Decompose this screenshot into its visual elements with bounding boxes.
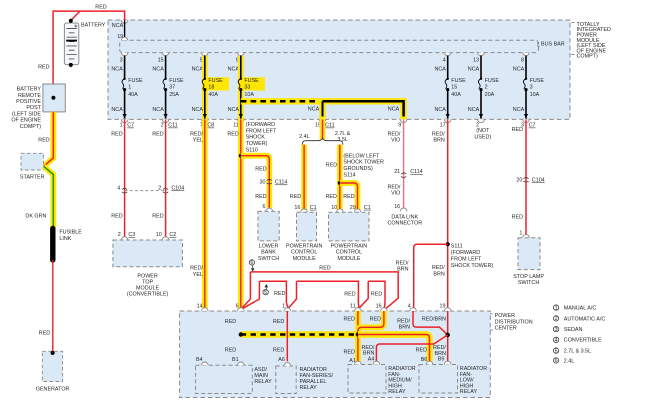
wire: fusible link to generator (RED) — [39, 260, 53, 351]
junction at PDC pin 11 column — [356, 332, 360, 336]
svg-text:RED: RED — [512, 127, 523, 133]
svg-text:RED/: RED/ — [396, 260, 409, 266]
wire: junction to A4 (RED/BRN) — [362, 335, 448, 361]
svg-text:AUTOMATIC A/C: AUTOMATIC A/C — [564, 316, 606, 322]
node: PDC pin 19 — [440, 303, 452, 311]
svg-text:RED/: RED/ — [190, 266, 203, 272]
svg-text:4: 4 — [555, 338, 558, 344]
svg-text:RED: RED — [95, 4, 106, 10]
fuse 3 (10A) column — [513, 53, 545, 129]
svg-text:3: 3 — [120, 58, 123, 64]
node: PDC pin 16 — [376, 303, 388, 311]
fuse 33 (10A) column — [228, 53, 265, 129]
ASD/main relay box — [196, 365, 272, 393]
svg-text:BRN: BRN — [433, 271, 444, 277]
node: power top module pin 10 C2 — [156, 232, 177, 240]
svg-text:BRN: BRN — [433, 138, 444, 144]
svg-text:C11: C11 — [168, 123, 178, 129]
svg-text:C7: C7 — [529, 123, 536, 129]
svg-text:NCA: NCA — [152, 107, 164, 113]
svg-text:40A: 40A — [451, 92, 461, 98]
svg-text:CONVERTIBLE: CONVERTIBLE — [564, 338, 602, 344]
marker circled 6 (2.4L feed) — [249, 260, 254, 272]
svg-text:1: 1 — [128, 84, 131, 90]
svg-text:LINK: LINK — [59, 236, 71, 242]
bus bar — [120, 40, 539, 52]
label RED (C104 to power top module pin 2 C3) — [111, 213, 122, 219]
svg-text:RELAY: RELAY — [388, 389, 406, 395]
svg-text:2: 2 — [485, 84, 488, 90]
svg-text:15: 15 — [451, 84, 457, 90]
svg-text:POSITIVE: POSITIVE — [16, 99, 41, 105]
svg-text:3: 3 — [555, 327, 558, 333]
junction at PDC pin 19 column — [446, 333, 450, 337]
svg-text:DISTRIBUTION: DISTRIBUTION — [495, 319, 533, 325]
svg-text:NCA: NCA — [513, 66, 525, 72]
svg-text:RED: RED — [344, 316, 355, 322]
svg-text:29: 29 — [350, 205, 356, 211]
svg-text:RED: RED — [326, 194, 337, 200]
svg-text:1: 1 — [555, 305, 558, 311]
fuse 37 (25A) column — [152, 53, 184, 129]
lower bank switch box — [258, 211, 279, 262]
node: TIPM pin 2 (not used) — [474, 128, 491, 141]
wire: TIPM pin2 C11 to C104 pin 2 (RED) — [152, 119, 165, 236]
power top module box — [113, 240, 182, 297]
svg-text:RED/: RED/ — [388, 131, 401, 137]
fuse 1 (40A) column — [111, 53, 143, 129]
svg-text:RED: RED — [326, 162, 337, 168]
svg-text:RED: RED — [152, 213, 163, 219]
svg-text:RED: RED — [39, 331, 50, 337]
svg-text:BUS BAR: BUS BAR — [541, 41, 565, 47]
svg-text:30: 30 — [260, 180, 266, 186]
svg-text:2: 2 — [158, 185, 161, 191]
svg-text:RED: RED — [273, 347, 284, 353]
svg-text:COMPT): COMPT) — [577, 54, 598, 60]
svg-text:FUSE: FUSE — [451, 78, 466, 84]
svg-text:NCA: NCA — [192, 66, 204, 72]
svg-text:RED: RED — [370, 316, 381, 322]
svg-text:16: 16 — [294, 205, 300, 211]
svg-text:C1: C1 — [364, 205, 371, 211]
svg-text:RED: RED — [290, 194, 301, 200]
wire H1: feed to PDC pins 6 and 16 (RED) — [242, 266, 398, 309]
svg-text:40A: 40A — [128, 92, 138, 98]
svg-text:MANUAL A/C: MANUAL A/C — [564, 306, 597, 312]
svg-text:DATA LINK: DATA LINK — [391, 214, 418, 220]
svg-text:3.5L: 3.5L — [337, 137, 348, 143]
svg-text:4: 4 — [408, 303, 411, 309]
wire: S110 branch to lower bank switch pin 6 (RED, highlighted) — [241, 156, 269, 208]
svg-text:S110: S110 — [246, 148, 258, 154]
wire: S114 branch to PCM pin 29 C1 (RED, highlighted) — [326, 183, 358, 211]
svg-text:RED/: RED/ — [432, 131, 445, 137]
svg-text:USED): USED) — [474, 134, 491, 140]
svg-text:MODULE: MODULE — [337, 256, 360, 262]
svg-text:10: 10 — [156, 232, 162, 238]
svg-text:1: 1 — [519, 230, 522, 236]
marker circled 5 (2.7L/3.5L feed) — [263, 284, 286, 297]
bus bar label — [538, 41, 565, 47]
node: series/parallel relay pin A6 — [284, 363, 291, 366]
svg-text:40A: 40A — [208, 92, 218, 98]
svg-text:1: 1 — [120, 123, 123, 129]
svg-text:GENERATOR: GENERATOR — [36, 387, 70, 393]
wire: pin 19 to bus bar (NCA) — [122, 20, 128, 40]
svg-text:A4: A4 — [368, 357, 375, 363]
node: ASD relay pin B1 — [238, 362, 245, 365]
radiator fan medium/high relay box — [348, 365, 416, 396]
svg-text:C104: C104 — [532, 177, 545, 183]
wire: PDC pin 19 through junction to B9 (RED/BRN) — [433, 311, 448, 361]
svg-text:SHOCK TOWER): SHOCK TOWER) — [451, 263, 494, 269]
powertrain control module box (2.4L) — [286, 212, 323, 262]
wire: PDC pin 4 to junction at pin 19 (RED/BRN) — [397, 311, 448, 335]
svg-text:B1: B1 — [232, 357, 239, 363]
wire: PDC pin 16 curve into pin 11 column (RED, highlighted) — [358, 311, 384, 335]
svg-text:VIO: VIO — [391, 191, 400, 197]
label RED (post box output) — [38, 137, 49, 143]
svg-text:YEL: YEL — [193, 138, 203, 144]
svg-text:SEDAN: SEDAN — [564, 327, 583, 333]
svg-text:20: 20 — [516, 177, 522, 183]
fusible link — [50, 227, 82, 260]
svg-text:1: 1 — [282, 303, 285, 309]
svg-text:TOWER): TOWER) — [246, 141, 268, 147]
power distribution center box (PDC) — [180, 311, 491, 398]
svg-text:RED: RED — [111, 213, 122, 219]
label RED/VIO (C114 to data link connector pin 16) — [388, 184, 401, 196]
svg-text:21: 21 — [394, 169, 400, 175]
svg-text:RED: RED — [343, 194, 354, 200]
svg-text:6: 6 — [555, 358, 558, 364]
svg-text:VIO: VIO — [391, 138, 400, 144]
wire: TIPM pin19 C11 stub (RED, highlighted) — [320, 119, 326, 139]
label RED (left battery wire) — [38, 64, 49, 70]
svg-text:RED: RED — [273, 319, 284, 325]
svg-text:STARTER: STARTER — [20, 175, 45, 181]
svg-text:10: 10 — [331, 205, 337, 211]
battery — [64, 19, 105, 67]
label RED (top feed wire) — [95, 4, 106, 10]
connector C104 pin 20 — [516, 177, 544, 183]
svg-text:17: 17 — [440, 123, 446, 129]
svg-text:B9: B9 — [438, 357, 445, 363]
TIPM label — [571, 22, 611, 60]
svg-text:C3: C3 — [128, 232, 135, 238]
svg-text:COMPT): COMPT) — [20, 124, 41, 130]
svg-text:RED: RED — [255, 166, 266, 172]
svg-text:FROM LEFT: FROM LEFT — [451, 256, 482, 262]
svg-text:CONTROL: CONTROL — [291, 250, 317, 256]
node: stop lamp switch pin 1 — [519, 230, 529, 237]
svg-text:C11: C11 — [325, 123, 335, 129]
wire: 2.7L/3.5L branch to S114 (RED, highlighted) — [326, 145, 340, 211]
fuse 18 (40A) column — [192, 53, 229, 129]
svg-text:15: 15 — [158, 58, 164, 64]
svg-text:16: 16 — [394, 204, 400, 210]
node: medium/high relay pin A1 — [355, 361, 362, 364]
svg-text:C114: C114 — [275, 180, 288, 186]
svg-text:SHOCK: SHOCK — [246, 135, 266, 141]
node: PDC pin 14 — [197, 303, 209, 311]
wire: TIPM pin11 to S110 to PDC pin 6 (RED, highlighted) — [227, 119, 240, 362]
node: low/high relay pin B9 — [444, 361, 451, 364]
svg-text:2.7L & 3.5L: 2.7L & 3.5L — [564, 349, 591, 355]
svg-text:GROUNDS): GROUNDS) — [343, 166, 373, 172]
wire: PDC pin 1 to A6 (RED) — [273, 311, 287, 361]
node: medium/high relay pin A4 — [373, 361, 380, 364]
svg-text:13: 13 — [473, 58, 479, 64]
svg-text:RED: RED — [371, 291, 382, 297]
node: PDC pin 6 — [236, 303, 245, 311]
svg-text:BRN: BRN — [399, 325, 410, 331]
svg-text:4: 4 — [443, 58, 446, 64]
wire: junction to B6 (RED, highlighted) — [358, 335, 430, 362]
svg-text:5: 5 — [264, 290, 267, 296]
svg-text:(FORWARD: (FORWARD — [451, 250, 480, 256]
wire: TIPM pin 3 C7 to C104 pin 20 (RED) — [512, 119, 526, 234]
svg-text:20A: 20A — [485, 92, 495, 98]
node: PCM pin 10 — [331, 205, 343, 212]
label RED (pin 6 below junction) — [225, 347, 236, 353]
stop lamp switch box — [513, 238, 544, 286]
label RED (below C114-30) — [255, 194, 266, 200]
svg-text:CENTER: CENTER — [495, 326, 517, 332]
svg-text:NCA: NCA — [513, 107, 525, 113]
svg-text:FUSIBLE: FUSIBLE — [59, 230, 82, 236]
svg-text:6: 6 — [250, 260, 253, 266]
svg-text:2.4L: 2.4L — [564, 358, 575, 364]
svg-text:RED: RED — [38, 64, 49, 70]
svg-text:4: 4 — [117, 185, 120, 191]
svg-text:6: 6 — [263, 204, 266, 210]
wire: TIPM pin1 C7 to C104 pin 4 (RED) — [111, 119, 124, 236]
svg-text:11: 11 — [350, 303, 356, 309]
svg-text:RED: RED — [416, 347, 427, 353]
svg-text:16: 16 — [376, 303, 382, 309]
svg-text:RED: RED — [274, 291, 285, 297]
splice S114 — [338, 153, 384, 185]
svg-text:NCA: NCA — [228, 107, 240, 113]
svg-text:YEL: YEL — [193, 272, 203, 278]
data link connector label — [387, 214, 422, 226]
wire: PDC pin 6 junction to pin 11 junction (dashed, highlighted) — [241, 331, 358, 337]
svg-text:FUSE: FUSE — [485, 78, 500, 84]
svg-text:2: 2 — [555, 316, 558, 322]
battery remote positive post box — [11, 84, 65, 130]
svg-text:18: 18 — [208, 84, 214, 90]
svg-text:6: 6 — [236, 303, 239, 309]
label B-pin names — [196, 357, 444, 364]
svg-text:3: 3 — [530, 84, 533, 90]
svg-text:RED: RED — [111, 131, 122, 137]
svg-text:SWITCH: SWITCH — [258, 256, 279, 262]
svg-text:NCA: NCA — [111, 107, 123, 113]
powertrain control module box (2.7L/3.5L) — [329, 212, 370, 262]
svg-text:FROM LEFT: FROM LEFT — [246, 128, 277, 134]
svg-text:25A: 25A — [169, 92, 179, 98]
wire H4: PDC pin 11 to pin 16 (RED) — [359, 281, 385, 308]
node: PCM pin 29 C1 — [350, 205, 371, 212]
svg-text:C1: C1 — [310, 205, 317, 211]
node: PDC pin 4 — [408, 303, 417, 311]
svg-text:NCA: NCA — [435, 107, 447, 113]
svg-text:FUSE: FUSE — [169, 78, 184, 84]
wire: TIPM pin7 C8 to PDC pin 14 to ASD relay B4 (RED/YEL, highlighted) — [190, 119, 205, 362]
svg-text:RED/: RED/ — [388, 184, 401, 190]
svg-text:CONNECTOR: CONNECTOR — [387, 221, 422, 227]
svg-text:9: 9 — [398, 123, 401, 129]
svg-text:C2: C2 — [169, 232, 176, 238]
svg-text:(BELOW LEFT: (BELOW LEFT — [343, 153, 380, 159]
wire: 2.4L branch to PCM pin 16 C1 (RED, highlighted) — [290, 145, 304, 211]
wire H2: feed to PDC pins 6 and 1 (RED) — [243, 281, 288, 308]
svg-text:(NOT: (NOT — [476, 128, 490, 134]
label RED (pin 6 above junction) — [225, 319, 236, 325]
svg-text:2.7L &: 2.7L & — [335, 131, 351, 137]
svg-text:RED: RED — [152, 131, 163, 137]
svg-text:2: 2 — [118, 232, 121, 238]
svg-text:RELAY: RELAY — [254, 379, 272, 385]
svg-text:BANK: BANK — [261, 250, 276, 256]
totally integrated power module box (TIPM) — [108, 20, 570, 119]
wire: post box to starter jog (RED, highlighted) — [44, 112, 54, 166]
svg-text:POST: POST — [26, 105, 41, 111]
svg-text:RED: RED — [225, 347, 236, 353]
svg-text:NCA: NCA — [308, 106, 320, 112]
fuse 15 (40A) column — [435, 53, 467, 129]
svg-text:RELAY: RELAY — [460, 389, 478, 395]
svg-text:NCA: NCA — [435, 66, 447, 72]
svg-text:RELAY: RELAY — [300, 385, 318, 391]
svg-text:RED: RED — [512, 214, 523, 220]
svg-text:RED: RED — [255, 194, 266, 200]
svg-text:FUSE: FUSE — [244, 78, 259, 84]
svg-text:RED: RED — [227, 131, 238, 137]
junction at PDC pin 6 column — [239, 332, 243, 336]
svg-text:2: 2 — [161, 123, 164, 129]
brace splitting to engine variants — [299, 131, 351, 145]
svg-text:C114: C114 — [410, 169, 423, 175]
node: ASD relay pin B4 — [202, 362, 209, 365]
wire: PDC pin 11 to A1 (RED, highlighted) — [344, 311, 358, 361]
starter box — [20, 153, 45, 180]
label RED (C104 to power top module pin 10 C2) — [152, 213, 163, 219]
svg-text:NCA: NCA — [468, 66, 480, 72]
svg-text:POWER: POWER — [495, 313, 515, 319]
node: power top module pin 2 C3 — [118, 232, 136, 240]
svg-text:RED/: RED/ — [397, 318, 410, 324]
svg-text:19: 19 — [440, 303, 446, 309]
svg-text:B6: B6 — [421, 357, 428, 363]
radiator fan low/high relay box — [419, 365, 487, 396]
svg-text:8: 8 — [521, 58, 524, 64]
svg-text:NCA: NCA — [112, 23, 124, 29]
svg-text:A6: A6 — [278, 357, 285, 363]
svg-text:FUSE: FUSE — [208, 78, 223, 84]
fuse 2 (20A) column — [468, 53, 500, 129]
label RED (C104 to stop lamp switch pin 1) — [512, 214, 523, 220]
svg-text:STOP LAMP: STOP LAMP — [513, 274, 544, 280]
svg-text:RED/BRN: RED/BRN — [422, 317, 446, 323]
wire: battery positive to TIPM pin 19 (RED) — [53, 11, 125, 84]
node: PDC pin 11 — [350, 303, 361, 311]
node: TIPM pin 19 entry — [112, 20, 128, 40]
svg-text:C104: C104 — [171, 185, 184, 191]
svg-text:RED: RED — [38, 137, 49, 143]
connector C114 pin 21 — [394, 169, 423, 177]
svg-text:RED: RED — [344, 350, 355, 356]
svg-text:33: 33 — [244, 84, 250, 90]
svg-text:NCA: NCA — [192, 107, 204, 113]
svg-text:B4: B4 — [196, 357, 203, 363]
svg-text:SHOCK TOWER: SHOCK TOWER — [343, 160, 384, 166]
node: lower bank switch pin 6 — [263, 204, 273, 212]
svg-text:SWITCH: SWITCH — [518, 280, 539, 286]
svg-text:BATTERY: BATTERY — [17, 87, 42, 93]
svg-text:CONTROL: CONTROL — [336, 250, 362, 256]
svg-text:NCA: NCA — [152, 66, 164, 72]
splice S111 — [446, 242, 494, 269]
wire: TIPM pin 9 to C114 pin 21 (RED/VIO) — [388, 119, 404, 208]
node: PCM pin 16 C1 — [294, 205, 316, 212]
svg-text:(FORWARD: (FORWARD — [246, 122, 275, 128]
wire: starter jog to fusible link (DK GRN, highlighted) — [25, 166, 53, 228]
svg-text:BATTERY: BATTERY — [81, 22, 106, 28]
svg-text:RED/: RED/ — [432, 265, 445, 271]
svg-text:14: 14 — [197, 303, 203, 309]
svg-text:(CONVERTIBLE): (CONVERTIBLE) — [127, 291, 169, 297]
node: low/high relay pin B6 — [426, 361, 433, 364]
radiator fan series/parallel relay box — [276, 366, 334, 394]
svg-text:NCA: NCA — [468, 107, 480, 113]
svg-text:10A: 10A — [530, 92, 540, 98]
svg-text:LOWER: LOWER — [259, 243, 279, 249]
svg-text:NCA: NCA — [388, 106, 400, 112]
svg-text:C7: C7 — [127, 123, 134, 129]
wire H3: PDC pin 1 to pin 11 (RED) — [289, 281, 359, 308]
svg-text:OF ENGINE: OF ENGINE — [11, 118, 41, 124]
wire: fuse 33 jumper to pins 19 and 9 (highlighted) — [241, 101, 407, 128]
svg-text:POWERTRAIN: POWERTRAIN — [331, 243, 368, 249]
svg-text:RED: RED — [344, 291, 355, 297]
splice S110 — [239, 122, 277, 158]
svg-text:DK GRN: DK GRN — [25, 213, 46, 219]
svg-text:NCA: NCA — [111, 66, 123, 72]
node: PDC pin 1 — [282, 303, 291, 311]
svg-text:S114: S114 — [343, 173, 355, 179]
svg-text:2.4L: 2.4L — [299, 134, 310, 140]
svg-text:POWERTRAIN: POWERTRAIN — [286, 243, 323, 249]
connector C104 (left, pins 4 and 2) — [117, 185, 184, 193]
node: data link connector pin 16 — [394, 204, 407, 211]
generator box — [36, 351, 70, 393]
wire: S111 branch to PDC pin 4 (RED/BRN) — [396, 244, 448, 311]
wire: TIPM pin 17 to S111 to PDC pin 19 (RED/BRN) — [432, 119, 448, 311]
svg-text:37: 37 — [169, 84, 175, 90]
svg-text:REMOTE: REMOTE — [18, 93, 41, 99]
svg-text:FUSE: FUSE — [530, 78, 545, 84]
svg-text:RED: RED — [319, 266, 330, 272]
legend: option key — [553, 305, 605, 364]
svg-text:5: 5 — [555, 348, 558, 354]
svg-text:RED: RED — [225, 319, 236, 325]
label RED/BRN (pin 19 wire) — [422, 317, 446, 323]
svg-text:S111: S111 — [451, 244, 463, 250]
svg-text:10A: 10A — [244, 92, 254, 98]
